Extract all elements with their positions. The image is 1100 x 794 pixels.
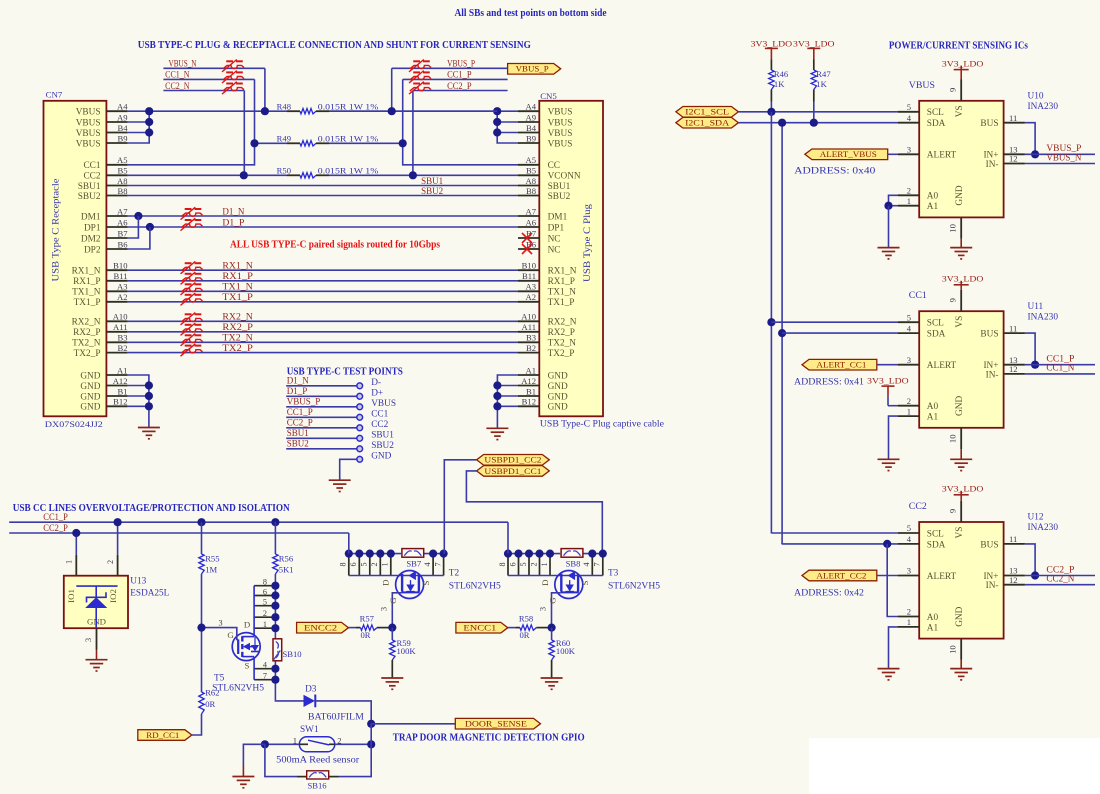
svg-text:A8: A8 xyxy=(525,176,536,186)
section title: USB TYPE-C PLUG & RECEPTACLE CONNECTION AND SHUNT FOR CURRENT SENSING xyxy=(138,39,531,51)
svg-text:RX2_P: RX2_P xyxy=(73,328,100,338)
svg-text:5K1: 5K1 xyxy=(279,565,294,575)
svg-text:VBUS: VBUS xyxy=(548,118,573,128)
svg-text:STL6N2VH5: STL6N2VH5 xyxy=(212,684,264,694)
junction CN7 VBUS A9 xyxy=(145,118,153,126)
svg-text:DM1: DM1 xyxy=(81,212,101,222)
svg-text:1M: 1M xyxy=(205,565,217,575)
wire USBPD1_CC2 riser xyxy=(444,460,476,554)
svg-text:6: 6 xyxy=(508,562,517,566)
svg-text:9: 9 xyxy=(948,509,958,513)
wire TX2_P row xyxy=(128,352,518,354)
wire U11 BUS xyxy=(1025,333,1035,365)
svg-text:TX2_P: TX2_P xyxy=(222,343,253,353)
svg-text:3: 3 xyxy=(907,355,911,365)
svg-text:G: G xyxy=(227,630,234,640)
svg-text:RX1_P: RX1_P xyxy=(222,271,253,281)
svg-text:3V3_LDO: 3V3_LDO xyxy=(793,38,835,48)
svg-text:DP1: DP1 xyxy=(84,223,101,233)
wire RX1_P row xyxy=(128,280,518,282)
section title: USB CC LINES OVERVOLTAGE/PROTECTION AND ISOLATION xyxy=(13,503,291,514)
diode D3 BAT60JFILM xyxy=(304,685,364,723)
wire RX1_N row xyxy=(128,269,518,271)
hierarchical label ALERT_CC1 xyxy=(802,359,877,370)
wire R48 mid left xyxy=(329,110,497,112)
junction T5 pin at y628 xyxy=(271,624,279,632)
svg-text:8: 8 xyxy=(498,562,507,566)
svg-text:GND: GND xyxy=(371,451,391,461)
wire CN5 GND B12 stub xyxy=(497,405,518,407)
wire CC2_N stub xyxy=(163,90,244,92)
svg-text:CC1_N: CC1_N xyxy=(1046,363,1074,373)
svg-text:ALERT_VBUS: ALERT_VBUS xyxy=(820,149,877,159)
power flag 3V3_LDO at U10 VS xyxy=(942,59,984,80)
svg-text:TX1_N: TX1_N xyxy=(548,288,577,298)
net label D1_N row xyxy=(222,206,244,216)
wire CC2_P riser xyxy=(412,91,414,176)
wire CC2_P rail xyxy=(9,532,349,534)
solder bridge on RX2_P xyxy=(181,323,203,335)
svg-text:A5: A5 xyxy=(117,155,128,165)
ground at U12 GND xyxy=(950,669,972,680)
junction R48 left xyxy=(261,107,269,115)
svg-text:12: 12 xyxy=(1009,154,1018,164)
wire T5 source to D3 xyxy=(275,699,303,702)
svg-text:B10: B10 xyxy=(113,261,127,271)
svg-text:ALERT: ALERT xyxy=(927,151,957,161)
resistor R58 0R xyxy=(515,614,551,640)
solder bridge on TX2_P xyxy=(181,344,203,356)
wire CC2_P rail to T2 xyxy=(348,533,350,554)
svg-text:SBU2: SBU2 xyxy=(371,441,394,451)
svg-text:SBU2: SBU2 xyxy=(421,186,443,196)
reed switch SW1 xyxy=(276,725,360,765)
svg-text:B11: B11 xyxy=(522,271,536,281)
svg-text:T2: T2 xyxy=(449,568,460,578)
svg-text:TX2_P: TX2_P xyxy=(548,349,575,359)
ground under R60 xyxy=(541,678,563,689)
wire CC1_N out xyxy=(1025,373,1095,375)
solder bridge on RX2_N xyxy=(181,313,203,325)
solder bridge on VBUS_P xyxy=(409,60,431,72)
svg-text:VBUS: VBUS xyxy=(76,118,101,128)
svg-text:6: 6 xyxy=(349,562,358,566)
svg-text:A2: A2 xyxy=(525,292,536,302)
no-connect X on CN5 pin B7 xyxy=(522,233,532,243)
junction T2 at x369 xyxy=(366,550,374,558)
net label CC2_P top xyxy=(447,81,472,91)
wire SCL to U11 xyxy=(771,321,898,323)
junction T5 pin at y585 xyxy=(271,582,279,590)
svg-text:I2C1_SCL: I2C1_SCL xyxy=(685,107,729,117)
wire ENCC1 to R58 xyxy=(508,627,516,629)
svg-text:B4: B4 xyxy=(526,123,537,133)
junction R50 right xyxy=(409,171,417,179)
svg-text:3: 3 xyxy=(219,619,223,628)
svg-text:IN-: IN- xyxy=(986,581,999,591)
svg-text:1: 1 xyxy=(65,560,74,564)
svg-text:11: 11 xyxy=(1009,113,1017,123)
junction U10 BUS/IN+ xyxy=(1031,150,1039,158)
wire SB16 left xyxy=(265,744,307,776)
wire SW1 pin1 xyxy=(265,743,299,745)
solder bridge on CC2_P xyxy=(409,82,431,94)
svg-text:R55: R55 xyxy=(205,554,219,564)
power flag 3V3_LDO at U11 VS xyxy=(942,274,984,290)
svg-text:B6: B6 xyxy=(117,239,128,249)
svg-text:A6: A6 xyxy=(117,217,128,227)
wire U10 A1 xyxy=(889,205,899,207)
svg-text:6: 6 xyxy=(263,587,267,596)
svg-text:GND: GND xyxy=(548,382,568,392)
svg-text:2: 2 xyxy=(370,562,379,566)
net label CC1_P rail xyxy=(43,512,68,522)
svg-text:B10: B10 xyxy=(522,261,536,271)
resistor R48 0.015R xyxy=(277,102,379,114)
svg-text:SB7: SB7 xyxy=(406,559,422,569)
svg-text:INA230: INA230 xyxy=(1028,102,1059,112)
svg-text:GND: GND xyxy=(548,392,568,402)
solder bridge SB16 xyxy=(307,771,329,791)
svg-text:ALERT: ALERT xyxy=(927,361,957,371)
svg-text:STL6N2VH5: STL6N2VH5 xyxy=(608,582,660,592)
svg-text:A8: A8 xyxy=(117,176,128,186)
wire ALERT_VBUS to U10 xyxy=(888,153,898,155)
junction R49 right xyxy=(399,139,407,147)
svg-text:U12: U12 xyxy=(1028,513,1044,523)
wire SB16 right xyxy=(329,724,372,777)
svg-text:RX2_N: RX2_N xyxy=(548,318,577,328)
wire CC1_N stub xyxy=(163,78,254,80)
svg-text:VBUS_P: VBUS_P xyxy=(447,59,475,69)
svg-text:3V3_LDO: 3V3_LDO xyxy=(942,274,984,284)
test point pad VBUS xyxy=(357,399,396,410)
svg-text:R58: R58 xyxy=(519,614,533,624)
solder bridge on D1_N xyxy=(181,207,203,219)
junction T5 pin at y595 xyxy=(271,591,279,599)
label ADDRESS: 0x42 xyxy=(794,588,864,598)
svg-text:B5: B5 xyxy=(526,166,536,176)
junction T2 gate / R57 / R59 xyxy=(388,624,396,632)
svg-text:ESDA25L: ESDA25L xyxy=(130,588,169,598)
svg-text:R47: R47 xyxy=(816,69,831,79)
net label CC2_P at test point xyxy=(287,418,313,428)
ground at U12 A1 xyxy=(878,669,900,680)
svg-text:VBUS: VBUS xyxy=(548,139,573,149)
svg-text:G: G xyxy=(388,597,398,604)
svg-text:1: 1 xyxy=(381,562,390,566)
junction CN7 GND B12 xyxy=(145,402,153,410)
wire CN7 GND A1 + riser xyxy=(128,375,149,428)
svg-text:SBU1: SBU1 xyxy=(548,182,571,192)
svg-text:B5: B5 xyxy=(117,166,127,176)
wire TX1_N row xyxy=(128,290,518,292)
wire CC1_P rail to T3 xyxy=(507,522,509,553)
svg-text:ALERT_CC2: ALERT_CC2 xyxy=(816,570,866,580)
net label CC2_P out xyxy=(1046,564,1074,574)
svg-text:IO2: IO2 xyxy=(108,589,118,603)
solder bridge on RX1_N xyxy=(181,261,203,273)
wire VBUS_P riser xyxy=(391,68,393,111)
svg-text:USB Type-C Plug captive cable: USB Type-C Plug captive cable xyxy=(540,420,664,430)
svg-text:BUS: BUS xyxy=(980,119,998,129)
svg-text:SDA: SDA xyxy=(927,540,946,550)
transistor T5 STL6N2VH5 xyxy=(202,578,276,701)
wire U11 GND pin xyxy=(960,449,962,459)
label ADDRESS: 0x40 xyxy=(794,167,875,177)
svg-text:SB10: SB10 xyxy=(283,649,302,659)
svg-text:TX2_P: TX2_P xyxy=(74,349,101,359)
svg-text:NC: NC xyxy=(548,245,561,255)
wire CN5 VCONN B5 row xyxy=(329,174,518,176)
wire CN7 VBUS A4 row xyxy=(128,110,287,112)
svg-text:D1_N: D1_N xyxy=(287,376,309,386)
svg-text:VS: VS xyxy=(955,105,965,117)
svg-text:R56: R56 xyxy=(279,554,294,564)
svg-text:GND: GND xyxy=(955,396,965,416)
svg-text:IO1: IO1 xyxy=(66,589,76,603)
test point pad SBU1 xyxy=(357,430,394,441)
svg-text:RX1_N: RX1_N xyxy=(222,261,253,271)
resistor R55 1M xyxy=(199,522,220,627)
junction CN7 VBUS A4 xyxy=(145,107,153,115)
svg-text:RX1_N: RX1_N xyxy=(548,267,577,277)
svg-text:VBUS_P: VBUS_P xyxy=(287,397,321,407)
net label TX1_P row xyxy=(222,292,253,302)
ground at U11 GND xyxy=(950,459,972,470)
svg-text:IN-: IN- xyxy=(986,370,999,380)
svg-text:B4: B4 xyxy=(117,123,128,133)
svg-text:D-: D- xyxy=(371,378,381,388)
svg-text:5: 5 xyxy=(263,598,267,607)
svg-text:U10: U10 xyxy=(1028,92,1044,102)
ground at SW1 xyxy=(232,777,254,788)
svg-text:3: 3 xyxy=(379,607,388,611)
svg-text:A1: A1 xyxy=(525,365,536,375)
wire VBUS_N riser xyxy=(264,68,266,111)
svg-text:T5: T5 xyxy=(214,674,225,684)
junction U13 pin1 on CC2_P xyxy=(72,529,80,537)
wire CC1_P stub xyxy=(403,78,508,80)
junction R56 on CC1_P xyxy=(271,518,279,526)
svg-text:A12: A12 xyxy=(113,376,128,386)
svg-text:5: 5 xyxy=(907,312,911,322)
svg-text:ALL USB TYPE-C paired signals: ALL USB TYPE-C paired signals routed for… xyxy=(230,240,440,251)
TVS diode U13 ESDA25L xyxy=(64,522,170,660)
svg-text:TX2_N: TX2_N xyxy=(548,339,577,349)
svg-text:VBUS: VBUS xyxy=(371,399,396,409)
svg-text:RX1_N: RX1_N xyxy=(72,267,101,277)
svg-text:CC2_P: CC2_P xyxy=(43,523,68,533)
svg-text:2: 2 xyxy=(529,562,538,566)
svg-text:SW1: SW1 xyxy=(300,725,319,735)
junction CN5 GND B1 xyxy=(493,392,501,400)
svg-text:2: 2 xyxy=(907,607,911,617)
wire CN7 GND B12 stub xyxy=(128,405,149,407)
junction T3 at x508 xyxy=(504,550,512,558)
svg-text:CC2: CC2 xyxy=(371,420,388,430)
junction CN5 GND B12 xyxy=(493,402,501,410)
net label CC1_N xyxy=(165,70,190,80)
junction CN7 VBUS B4 xyxy=(145,128,153,136)
svg-text:3V3_LDO: 3V3_LDO xyxy=(751,38,793,48)
svg-text:0R: 0R xyxy=(361,630,371,640)
svg-text:1: 1 xyxy=(907,617,911,627)
net label CC1_P top xyxy=(447,70,472,80)
wire CN5 VBUS B9 stub + riser xyxy=(497,111,518,143)
svg-text:R48: R48 xyxy=(277,102,291,112)
junction U12 SDA/A0 xyxy=(883,540,891,548)
svg-text:A2: A2 xyxy=(117,292,128,302)
svg-text:ENCC1: ENCC1 xyxy=(463,623,496,633)
junction CN7 GND B1 xyxy=(145,392,153,400)
svg-text:B8: B8 xyxy=(526,186,536,196)
power flag 3V3_LDO at U11 A0 xyxy=(867,376,909,406)
svg-text:B12: B12 xyxy=(522,397,536,407)
wire U10 A1 to ground xyxy=(888,206,890,248)
svg-text:SDA: SDA xyxy=(927,330,946,340)
wire CC2_N out xyxy=(1025,584,1095,586)
svg-text:VBUS: VBUS xyxy=(909,80,935,91)
wire SW1 left to ground xyxy=(243,744,265,776)
svg-text:R57: R57 xyxy=(360,614,375,624)
svg-text:D1_P: D1_P xyxy=(222,217,244,227)
svg-text:11: 11 xyxy=(1009,534,1017,544)
wire test point VBUS xyxy=(286,406,357,408)
wire DP2 B6 riser xyxy=(128,227,150,249)
test point pad D+ xyxy=(357,388,383,399)
svg-text:12: 12 xyxy=(1009,364,1018,374)
resistor R60 100K xyxy=(549,628,576,678)
resistor R56 5K1 xyxy=(273,522,294,586)
svg-text:VBUS: VBUS xyxy=(548,108,573,118)
svg-text:CC2: CC2 xyxy=(909,501,927,512)
junction T2 at x433 xyxy=(429,550,437,558)
wire U12 BUS xyxy=(1025,544,1035,576)
svg-text:0.015R 1W 1%: 0.015R 1W 1% xyxy=(318,134,379,144)
hierarchical label I2C1_SDA xyxy=(676,117,739,128)
junction T2 at x348 xyxy=(345,550,353,558)
wire test point CC2 xyxy=(286,427,357,429)
wire CC2_N riser xyxy=(243,91,245,176)
wire CN5 VBUS A9 stub xyxy=(497,121,518,123)
wire U10 A0 xyxy=(889,195,899,205)
power flag 3V3_LDO at U12 VS xyxy=(942,484,984,501)
svg-text:GND: GND xyxy=(955,185,965,205)
svg-text:A4: A4 xyxy=(117,102,128,112)
svg-text:1K: 1K xyxy=(774,79,785,89)
wire CN5 VBUS B4 stub xyxy=(497,132,518,134)
wire U10 BUS xyxy=(1025,123,1035,155)
junction CN5 VBUS A4 xyxy=(493,107,501,115)
svg-text:GND: GND xyxy=(80,382,100,392)
svg-text:BUS: BUS xyxy=(980,330,998,340)
svg-text:9: 9 xyxy=(948,298,958,302)
test point pad SBU2 xyxy=(357,441,394,452)
svg-text:10: 10 xyxy=(948,224,958,233)
resistor R50 0.015R xyxy=(277,166,379,178)
svg-text:USB Type C Plug: USB Type C Plug xyxy=(582,203,592,282)
svg-text:DM1: DM1 xyxy=(548,212,568,222)
solder bridge on D1_P xyxy=(181,218,203,230)
svg-text:D1_N: D1_N xyxy=(222,206,244,216)
wire to DOOR_SENSE tag xyxy=(371,723,455,725)
wire SDA drop xyxy=(781,123,783,545)
junction DM1/DM2 xyxy=(134,212,142,220)
svg-text:D: D xyxy=(381,580,391,586)
net label D1_N at test point xyxy=(287,376,309,386)
svg-text:VBUS: VBUS xyxy=(76,129,101,139)
svg-text:0.015R 1W 1%: 0.015R 1W 1% xyxy=(318,102,379,112)
svg-text:B11: B11 xyxy=(113,271,127,281)
svg-text:3: 3 xyxy=(539,607,548,611)
svg-text:D: D xyxy=(244,619,250,629)
svg-text:2: 2 xyxy=(263,609,267,618)
net label CC2_N xyxy=(165,81,190,91)
wire SW1 pin2 xyxy=(335,743,371,745)
svg-text:4: 4 xyxy=(907,534,912,544)
svg-text:ENCC2: ENCC2 xyxy=(304,623,337,633)
svg-text:A9: A9 xyxy=(525,112,536,122)
svg-text:RD_CC1: RD_CC1 xyxy=(146,730,179,740)
svg-text:POWER/CURRENT SENSING ICs: POWER/CURRENT SENSING ICs xyxy=(889,41,1028,52)
wire test point D- xyxy=(286,385,357,387)
junction T5 pin at y679 xyxy=(271,676,279,684)
svg-text:CC1_N: CC1_N xyxy=(165,70,190,80)
net label SBU1 at test point xyxy=(287,428,309,438)
solder bridge on RX1_P xyxy=(181,272,203,284)
junction T5 pin at y605 xyxy=(271,602,279,610)
junction R48 right xyxy=(388,107,396,115)
junction U11 BUS/IN+ xyxy=(1031,361,1039,369)
svg-text:DOOR_SENSE: DOOR_SENSE xyxy=(465,719,527,729)
section title: TRAP DOOR MAGNETIC DETECTION GPIO xyxy=(393,733,585,744)
net label SBU2 at test point xyxy=(287,439,309,449)
ground under U13 xyxy=(86,660,108,671)
svg-text:5: 5 xyxy=(907,523,911,533)
svg-text:1: 1 xyxy=(907,196,911,206)
net label TX2_P row xyxy=(222,343,253,353)
svg-text:CC2_P: CC2_P xyxy=(287,418,313,428)
wire I2C1_SDA xyxy=(738,122,898,124)
net label RX2_N row xyxy=(222,312,253,322)
svg-text:B7: B7 xyxy=(117,228,128,238)
junction T5 gate / R55 / R62 xyxy=(197,624,205,632)
svg-text:USB Type C Receptacle: USB Type C Receptacle xyxy=(51,178,61,281)
solder bridge SB10 xyxy=(273,639,302,661)
power flag 3V3_LDO at R46 xyxy=(751,38,793,59)
svg-text:TX1_P: TX1_P xyxy=(222,292,253,302)
ground under R59 xyxy=(381,678,403,689)
wire R49 right xyxy=(329,142,403,144)
svg-text:CC2_P: CC2_P xyxy=(447,81,472,91)
net label TX2_N row xyxy=(222,333,253,343)
svg-text:A1: A1 xyxy=(927,623,939,633)
svg-text:G: G xyxy=(547,597,557,604)
net label D1_P row xyxy=(222,217,244,227)
svg-text:SB16: SB16 xyxy=(308,781,328,791)
svg-text:VCONN: VCONN xyxy=(548,172,581,182)
svg-text:U13: U13 xyxy=(130,577,146,587)
wire test point CC1 xyxy=(286,416,357,418)
svg-text:4: 4 xyxy=(907,113,912,123)
svg-text:RX2_N: RX2_N xyxy=(72,318,101,328)
svg-text:VBUS: VBUS xyxy=(76,108,101,118)
wire CN5 VBUS A4 row xyxy=(329,110,518,112)
svg-text:0.015R 1W 1%: 0.015R 1W 1% xyxy=(318,166,379,176)
wire ALERT_CC2 to U12 xyxy=(877,575,898,577)
wire test point D+ xyxy=(286,395,357,397)
